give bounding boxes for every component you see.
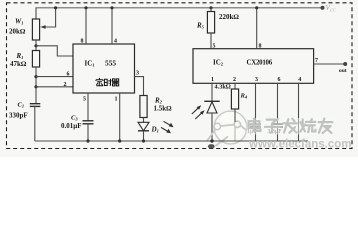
svg-text:8: 8	[259, 44, 262, 50]
svg-text:W1: W1	[15, 18, 23, 26]
resistor R2 1.5k	[140, 96, 147, 118]
resistor R5 220k	[209, 6, 212, 9]
pin 1 wire	[119, 93, 121, 141]
svg-text:D1: D1	[151, 126, 159, 134]
node D1 ground junction	[142, 139, 145, 142]
photodiode D2	[204, 100, 219, 102]
svg-text:47kΩ: 47kΩ	[10, 60, 27, 68]
电	[249, 119, 261, 131]
器	[112, 79, 119, 86]
blotch under photodiode ground	[208, 144, 215, 149]
svg-text:4: 4	[298, 77, 301, 83]
svg-text:4.3kΩ: 4.3kΩ	[215, 83, 231, 90]
wire to pin 6	[36, 76, 73, 78]
capacitor C1	[30, 103, 41, 105]
svg-text:3: 3	[136, 71, 139, 77]
wire to pin 2	[36, 86, 73, 88]
node D2 ground junction	[210, 139, 214, 143]
svg-text:2: 2	[64, 82, 67, 88]
svg-text:3: 3	[255, 77, 258, 83]
svg-text:5: 5	[213, 44, 216, 50]
potentiometer W1	[32, 19, 39, 40]
capacitor C3	[83, 120, 94, 122]
svg-text:20kΩ: 20kΩ	[9, 28, 26, 36]
wire R4 lower lead visible part	[234, 109, 236, 122]
svg-text:6: 6	[67, 72, 70, 78]
svg-text:2: 2	[233, 77, 236, 83]
IC U2 CX20106	[193, 49, 314, 84]
wire 555 pin 8	[85, 8, 87, 44]
watermark logo circle	[207, 111, 248, 146]
svg-text:CX20106: CX20106	[247, 60, 273, 67]
node wiper junction	[54, 6, 57, 9]
svg-text:1: 1	[211, 77, 214, 83]
node C3 ground junction	[86, 139, 89, 142]
wire CX pin 8	[256, 8, 258, 49]
node junction pin2	[34, 85, 37, 88]
友	[319, 119, 333, 134]
svg-text:R2: R2	[154, 97, 163, 105]
wire 555 pin 4	[111, 8, 113, 44]
svg-text:R1: R1	[16, 52, 24, 60]
svg-text:5: 5	[83, 97, 86, 103]
wire pin1 column	[211, 83, 213, 101]
node Vcc terminal	[321, 6, 325, 10]
svg-text:330pF: 330pF	[9, 112, 28, 120]
svg-text:www.elecfans.com: www.elecfans.com	[248, 139, 351, 151]
svg-text:C1: C1	[18, 102, 25, 109]
wire W1-R1 link	[35, 40, 37, 51]
D1 emission arrows	[164, 121, 172, 126]
wire R1 bottom column	[35, 67, 37, 104]
resistor R1	[32, 51, 39, 68]
wire W1 top lead	[35, 8, 37, 19]
svg-text:1: 1	[115, 97, 118, 103]
svg-text:6: 6	[278, 77, 281, 83]
svg-text:1.5kΩ: 1.5kΩ	[154, 105, 173, 113]
IC U1 555 timer	[73, 44, 135, 93]
svg-text:8: 8	[81, 39, 84, 45]
wire W1 wiper	[43, 8, 56, 27]
wire pin4 column	[298, 83, 300, 141]
ground rail	[35, 140, 308, 142]
capacitor col pin6	[277, 83, 279, 124]
svg-text:0.01μF: 0.01μF	[61, 122, 82, 130]
svg-text:C3: C3	[71, 115, 78, 122]
svg-text:220kΩ: 220kΩ	[219, 13, 239, 21]
烧	[300, 119, 315, 132]
wire to 555 pin 7	[36, 46, 73, 56]
svg-text:555: 555	[105, 59, 116, 68]
svg-text:VCC: VCC	[326, 4, 336, 12]
时	[104, 79, 111, 86]
watermark chinese text	[247, 118, 334, 135]
border frame	[7, 3, 353, 149]
svg-text:R4: R4	[240, 93, 248, 100]
wire Vcc top rail	[36, 7, 323, 9]
LED D1	[138, 122, 149, 131]
子	[265, 120, 280, 133]
D2 incoming light arrows	[192, 108, 199, 114]
发	[283, 119, 297, 133]
node A junction to pin7	[34, 44, 37, 47]
node junction pin6	[34, 75, 37, 78]
pin 5 wire	[87, 93, 89, 121]
svg-text:out: out	[339, 68, 347, 74]
wire C1 to ground	[34, 106, 36, 141]
定	[96, 78, 103, 86]
svg-text:R5: R5	[196, 22, 205, 30]
node pin1 ground junction	[118, 139, 121, 142]
svg-text:4: 4	[114, 39, 117, 45]
capacitor col pin3	[255, 83, 257, 124]
svg-text:7: 7	[315, 58, 318, 64]
